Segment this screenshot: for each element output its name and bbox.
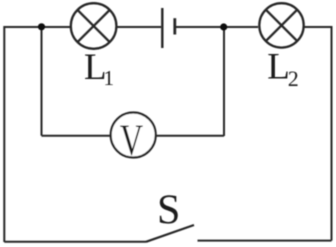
svg-text:S: S xyxy=(157,187,180,233)
svg-text:1: 1 xyxy=(104,66,115,90)
svg-text:L: L xyxy=(267,47,290,88)
svg-text:2: 2 xyxy=(288,66,299,91)
svg-text:V: V xyxy=(120,117,143,165)
